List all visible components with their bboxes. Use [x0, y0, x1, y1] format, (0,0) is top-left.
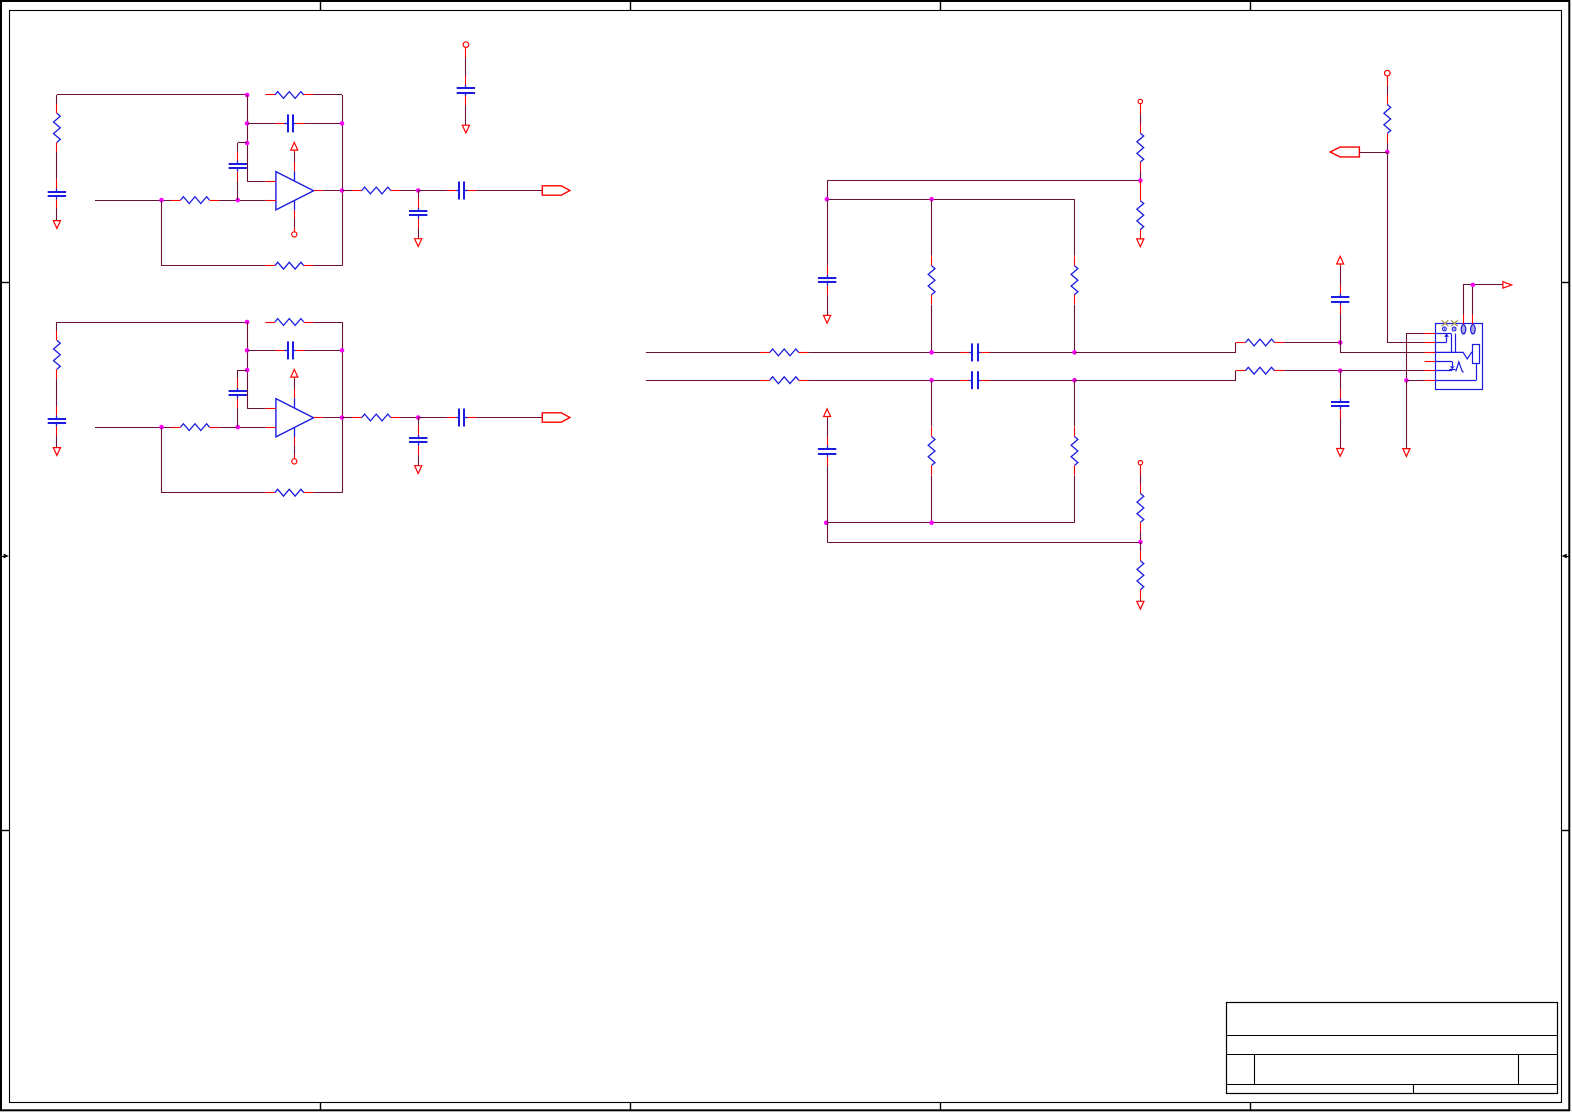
J1 internal pin4 line: [1435, 361, 1452, 363]
capacitor C22 (feedback): [276, 341, 305, 359]
resistor R15 (lower shunt mid): [928, 427, 935, 475]
power circle above R17: [1138, 99, 1142, 103]
wire inverting input horizontal: [247, 408, 266, 410]
wire node C2 jog left: [238, 370, 247, 372]
ground below C14: [415, 239, 422, 247]
capacitor C14 (output shunt): [409, 199, 427, 228]
wire down to C13: [237, 143, 239, 152]
ground below C24: [415, 466, 422, 474]
wire node H1 down to C14: [418, 191, 420, 199]
J1 internal lever: [1456, 362, 1464, 372]
resistor R13 (upper shunt mid): [928, 256, 935, 304]
wire ground bus down: [1406, 380, 1408, 448]
node top rail mid junction: [929, 197, 934, 202]
border tick top 4: [1250, 1, 1252, 11]
wire V- of U2: [294, 445, 296, 454]
resistor R12 (lower series): [760, 377, 808, 384]
border tick left 2: [1, 830, 10, 832]
border tick left 1: [1, 282, 10, 284]
wire R23 to cap node: [1284, 370, 1340, 372]
resistor R12 (input series): [171, 197, 219, 204]
power V- pin stub of U1: [294, 227, 296, 231]
node G1 cap row right junction: [340, 121, 345, 126]
wire C15 to output port: [476, 190, 542, 192]
wire U1 output to node F1: [323, 190, 342, 192]
node C1 inverting branch junction: [245, 141, 250, 146]
resistor R13 (feedback upper): [265, 92, 313, 99]
resistor R11 (input bias): [54, 104, 61, 152]
off-page arrow right: [1503, 282, 1512, 288]
wire lower out node to C17: [1340, 371, 1342, 390]
node J1 ground bus junction: [1404, 378, 1409, 383]
wire R19 to rail node: [1140, 532, 1142, 542]
node lower line mid junction: [929, 378, 934, 383]
wire left bias leg down: [56, 95, 58, 104]
wire R21 to detect node: [1387, 143, 1389, 152]
node D1 cap feedback junction: [245, 121, 250, 126]
wire inverting input horizontal: [247, 181, 266, 183]
node divider A junction: [1138, 178, 1143, 183]
resistor R14 (feedback lower): [265, 262, 313, 269]
wire R11 to mid junction: [808, 352, 960, 354]
title block divider row4: [1413, 1084, 1415, 1093]
wire R16 to bottom rail: [1074, 475, 1076, 522]
wire R12 to mid junction: [808, 380, 960, 382]
wire C12 to feedback bus: [305, 123, 342, 125]
wire node C1 jog left: [238, 142, 247, 144]
wire R24 to output node: [313, 492, 342, 494]
pin R18 upper: [1140, 181, 1142, 192]
pin 4 of J1: [1425, 361, 1436, 363]
wire C11 to ground: [56, 209, 58, 221]
wire lower line to jog: [1075, 371, 1236, 381]
wire V+ to U1: [294, 152, 296, 162]
resistor R15 (output series): [352, 187, 400, 194]
node lower out junction: [1338, 368, 1343, 373]
resistor R18 (divider lower): [1137, 191, 1144, 239]
wire node D1 to C12: [247, 123, 275, 125]
wire C24 to ground: [418, 455, 420, 466]
node bottom rail mid junction: [929, 521, 934, 526]
wire bottom rail left drop: [827, 523, 829, 542]
border tick bottom 3: [940, 1102, 942, 1110]
wire output to R25: [342, 417, 352, 419]
wire node H2 down to C24: [418, 418, 420, 426]
node F2 output junction: [340, 415, 345, 420]
resistor R14 (upper shunt right): [1071, 256, 1078, 304]
wire node E1 down to inverting branch: [247, 95, 249, 181]
wire net IN2 top-left corner to feedback node: [57, 322, 247, 324]
resistor R11 (upper series): [760, 349, 808, 356]
J1 internal box: [1473, 345, 1480, 364]
wire node E2 down to inverting branch: [247, 322, 249, 408]
node A2 input junction: [159, 425, 164, 430]
wire top outer rail: [827, 180, 1140, 182]
wire J1 pin6 to ground bus: [1406, 380, 1424, 382]
J1 internal pin5 line: [1435, 370, 1452, 372]
border tick bottom 2: [630, 1102, 632, 1110]
resistor R17 (divider upper): [1137, 124, 1144, 172]
wire R21 to C21: [56, 379, 58, 407]
border center arrow right: [1562, 554, 1570, 559]
wire C25 to output port: [476, 417, 542, 419]
wire C21 to ground: [56, 436, 58, 448]
wire R22 to op-amp noninverting input: [219, 427, 266, 429]
wire to R17: [1140, 114, 1142, 124]
node upper line mid junction: [929, 350, 934, 355]
node E2 top feedback junction: [245, 320, 250, 325]
resistor R23 (feedback upper): [265, 319, 313, 326]
power VCC arrow above C16: [1337, 256, 1344, 266]
pin 5 of J1: [1425, 370, 1436, 372]
wire detect node to connector pin2: [1388, 153, 1425, 343]
capacitor C13 (lower series): [961, 371, 990, 389]
wire bottom outer rail: [827, 542, 1140, 544]
ground below C21: [53, 448, 60, 456]
power circle above C11: [463, 42, 469, 48]
wire R12 to op-amp noninverting input: [219, 200, 266, 202]
resistor R20 (divider2 lower): [1137, 551, 1144, 599]
capacitor C16 (upper out): [1331, 285, 1349, 314]
wire rail node to R20: [1140, 542, 1142, 551]
wire port DETECT to node: [1359, 152, 1387, 154]
border tick bottom 1: [320, 1102, 322, 1110]
node E1 top feedback junction: [245, 93, 250, 98]
wire node H2 to C25: [418, 417, 447, 419]
title block divider row3 left: [1254, 1055, 1256, 1084]
J1 internal pin3 line with notch: [1435, 352, 1472, 359]
wire VCC to C15: [827, 418, 829, 437]
wire C13 to node B1: [237, 181, 239, 200]
ground below C11: [53, 221, 60, 229]
title block row line 2: [1227, 1054, 1558, 1056]
border tick top 2: [630, 1, 632, 11]
wire C14 to ground: [827, 295, 829, 316]
wire lower out to connector pin5: [1340, 370, 1424, 372]
node C2 inverting branch junction: [245, 368, 250, 373]
wire top rail to C14: [827, 199, 829, 266]
pin stub below power circle R21: [1387, 76, 1389, 86]
power VCC arrow above C15: [824, 409, 831, 419]
power V+ arrow of U2: [291, 369, 298, 379]
wire R14 to upper line: [1074, 305, 1076, 353]
J1 no-connect X 1: [1442, 320, 1449, 326]
wire top rail left drop: [827, 181, 829, 200]
pin 6 of J1: [1425, 380, 1436, 382]
node bottom rail left junction: [824, 521, 829, 526]
wire R25 to shunt node: [400, 417, 418, 419]
wire left bias leg down: [56, 322, 58, 331]
op-amp U1: [266, 162, 323, 219]
node upper line right junction: [1072, 350, 1077, 355]
wire power circle to C11: [465, 58, 467, 76]
capacitor C11 (input shunt): [48, 179, 66, 208]
wire C15 to bottom rail: [827, 466, 829, 523]
wire lower line left segment: [646, 380, 760, 382]
capacitor C11 (decoupling): [457, 76, 475, 105]
wire R20 to ground: [1140, 599, 1142, 601]
pin 1 of J1: [1425, 333, 1436, 335]
node H1 output RC junction: [416, 188, 421, 193]
pin stub below power circle R19: [1140, 465, 1142, 475]
pin 7 of J1 (top left): [1463, 315, 1465, 324]
wire node H1 to C15: [418, 190, 447, 192]
J1 no-connect X 2: [1451, 320, 1458, 326]
wire lower line to R16: [1074, 380, 1076, 426]
capacitor C24 (output shunt): [409, 426, 427, 455]
J1 internal bar B: [1455, 334, 1457, 353]
ground below C14: [824, 315, 831, 323]
capacitor C15 (lower ref): [818, 437, 836, 466]
J1 internal pin6 line: [1435, 380, 1476, 382]
J1 internal pin2 line: [1435, 342, 1446, 344]
resistor R23 (lower out series): [1236, 367, 1284, 374]
wire bottom feedback run: [162, 201, 266, 266]
J1 oval pin 7: [1461, 325, 1466, 334]
power circle V- of U1: [292, 232, 297, 237]
wire feedback bus right vertical: [342, 322, 344, 493]
power circle V- of U2: [292, 459, 297, 464]
title block row line 3: [1227, 1084, 1558, 1086]
power V- pin stub of U2: [294, 454, 296, 458]
wire down to C23: [237, 370, 239, 379]
border center arrow left: [0, 554, 9, 559]
resistor R24 (feedback lower): [265, 489, 313, 496]
wire C13 to right junction: [990, 380, 1075, 382]
wire R23 to feedback bus: [313, 322, 342, 324]
ground below R20: [1137, 601, 1144, 609]
wire lower line to R15: [931, 380, 933, 426]
J1 internal ring switch arrow: [1450, 366, 1455, 369]
node G2 cap row right junction: [340, 348, 345, 353]
port OUT2 (hierarchical output): [542, 413, 570, 422]
node H2 output RC junction: [416, 415, 421, 420]
capacitor C13 (comp): [229, 152, 247, 181]
J1 contact circle 2: [1452, 327, 1456, 331]
capacitor C17 (lower out): [1331, 389, 1349, 418]
capacitor C12 (feedback): [276, 114, 305, 132]
wire bottom feedback run: [162, 428, 266, 493]
wire node D2 to C22: [247, 350, 275, 352]
J1 internal box stem: [1476, 364, 1478, 381]
ground below R18: [1137, 239, 1144, 247]
wire V+ to U2: [294, 379, 296, 389]
wire to R19: [1140, 475, 1142, 484]
ground below J1: [1403, 449, 1410, 457]
pin 3 of J1: [1425, 352, 1436, 354]
wire R13 to upper line: [931, 305, 933, 353]
power circle above R21: [1385, 70, 1391, 76]
port OUT1 (hierarchical output): [542, 186, 570, 195]
power V+ arrow of U1: [291, 142, 298, 152]
capacitor C14 (upper ref): [818, 266, 836, 295]
border tick top 1: [320, 1, 322, 11]
wire feedback bus right vertical: [342, 95, 344, 266]
wire C16 to upper out node: [1340, 314, 1342, 342]
wire bottom inner rail: [826, 522, 1074, 524]
capacitor C25 (output coupling): [447, 409, 476, 427]
node B2 noninverting input junction: [236, 425, 241, 430]
wire R17 to rail node: [1140, 172, 1142, 181]
pin stub below power circle: [465, 47, 467, 58]
connector J1 body: [1436, 324, 1483, 390]
pin 2 of J1: [1425, 342, 1436, 344]
node divider B junction: [1138, 540, 1143, 545]
wire VCC to C16: [1340, 266, 1342, 285]
wire net IN1 top-left corner to feedback node: [57, 94, 247, 96]
capacitor C23 (comp): [229, 379, 247, 408]
wire C23 to node B2: [237, 408, 239, 427]
wire input net into R22: [95, 427, 171, 429]
wire J1 sleeve pins up: [1464, 285, 1503, 315]
node top rail left junction: [825, 197, 830, 202]
wire C17 to ground: [1340, 419, 1342, 449]
port DETECT (hierarchical input): [1330, 147, 1359, 157]
ground below C11: [462, 125, 469, 133]
J1 contact circle 1: [1443, 327, 1447, 331]
capacitor C12 (upper series): [961, 343, 990, 361]
title block row line 1: [1227, 1035, 1558, 1037]
J1 oval pin 8: [1471, 325, 1476, 334]
wire R15 to shunt node: [400, 190, 418, 192]
resistor R25 (output series): [352, 414, 400, 421]
resistor R16 (lower shunt right): [1071, 427, 1078, 475]
resistor R19 (divider2 upper): [1137, 484, 1144, 532]
title block divider row3 right: [1518, 1055, 1520, 1084]
wire output to R15: [342, 190, 352, 192]
wire V- of U1: [294, 218, 296, 227]
pin stub below power circle R17: [1140, 104, 1142, 115]
wire top rail to R13: [931, 199, 933, 256]
ground below C17: [1337, 449, 1344, 457]
pin 8 of J1 (top right): [1472, 315, 1474, 324]
wire upper line left segment: [646, 352, 760, 354]
resistor R21 (jack bias): [1384, 95, 1391, 143]
node F1 output junction: [340, 188, 345, 193]
J1 internal tip contact line: [1435, 333, 1451, 335]
wire U2 output to node F2: [323, 417, 342, 419]
capacitor C15 (output coupling): [447, 182, 476, 200]
J1 internal tip switch arrow: [1444, 333, 1449, 337]
node B1 noninverting input junction: [236, 198, 241, 203]
capacitor C21 (input shunt): [48, 406, 66, 435]
wire input net into R12: [95, 200, 171, 202]
node A1 input junction: [159, 198, 164, 203]
border tick top 3: [940, 1, 942, 11]
node D2 cap feedback junction: [245, 348, 250, 353]
wire R15 to bottom rail: [931, 475, 933, 522]
node lower line right junction: [1072, 378, 1077, 383]
resistor R22 (upper out series): [1236, 339, 1284, 346]
wire power to R21: [1387, 86, 1389, 95]
border tick right 2: [1561, 830, 1569, 832]
resistor R22 (input series): [171, 424, 219, 431]
wire R13 to feedback bus: [313, 94, 342, 96]
node jack detect junction: [1385, 150, 1390, 155]
op-amp U2: [266, 389, 323, 446]
wire C22 to feedback bus: [305, 350, 342, 352]
resistor R21 (input bias): [54, 331, 61, 379]
wire R11 to C11: [56, 152, 58, 180]
wire C11 to ground: [465, 105, 467, 125]
wire C14 to ground: [418, 228, 420, 239]
title block outline: [1227, 1003, 1558, 1094]
wire upper out to connector pin3: [1341, 343, 1425, 353]
wire C12 to right junction: [990, 352, 1075, 354]
wire J1 pin8 up: [1472, 285, 1474, 315]
power circle above R19: [1138, 461, 1142, 465]
border tick bottom 4: [1250, 1102, 1252, 1110]
wire J1 pin1 to ground bus: [1407, 334, 1425, 381]
wire upper line to jog: [1075, 343, 1236, 353]
wire R22 to cap node: [1284, 342, 1340, 344]
node upper out junction: [1338, 340, 1343, 345]
J1 internal bar A: [1451, 334, 1453, 353]
wire top rail corner to R14: [1074, 199, 1076, 256]
wire R14 to output node: [313, 265, 342, 267]
border tick right 1: [1561, 282, 1569, 284]
node J1 top junction: [1471, 283, 1476, 288]
wire top inner rail: [827, 199, 1075, 201]
